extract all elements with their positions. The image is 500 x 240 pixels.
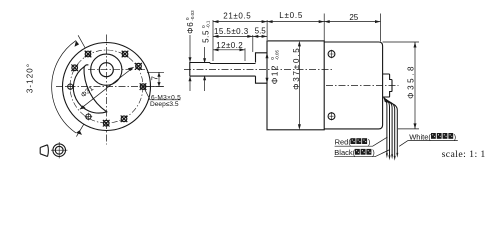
horizontal centerline (big circle) [56,86,165,88]
tapped hole 300deg [121,116,128,123]
projection symbol cone [40,145,48,157]
top dim lines [213,21,381,23]
svg-text:Φ6: Φ6 [186,21,195,33]
svg-text:25: 25 [349,13,358,22]
dim arc 3-120 [52,41,76,133]
svg-text:5.5: 5.5 [202,30,211,43]
extension lines top [213,14,381,62]
brush end cap [383,74,392,97]
5.5 arrows [204,47,206,91]
CJK-like blocks for white [431,133,453,139]
tapped hole 30deg [135,63,142,70]
crescent (internal gear edge) [73,67,106,113]
crescent cusp hook [84,65,88,68]
side view motor centerline [326,84,399,86]
svg-text:7: 7 [150,75,159,80]
svg-text:Red(: Red( [335,137,352,146]
shaft tip section [190,63,256,77]
plain hole 180deg [67,83,75,91]
label phi12 [270,49,280,84]
boss [256,53,268,83]
tapped hole 120deg [85,51,92,58]
motor screw bottom [328,112,335,120]
boss outer circle [91,54,122,85]
label phi6 [185,10,195,34]
phi12 arrows on gearbox face [266,53,269,59]
phi37 dim [298,45,300,126]
plain hole 240deg [85,113,93,121]
motor body [324,42,382,129]
svg-text:scale: 1: 1: scale: 1: 1 [442,149,486,160]
label 5.5 tol [201,20,211,43]
svg-text:L±0.5: L±0.5 [279,11,303,20]
svg-text:-0.03: -0.03 [190,10,195,21]
svg-text:White(: White( [409,132,431,141]
svg-text:Φ12: Φ12 [270,64,280,84]
CJK-like blocks for black [355,149,372,155]
svg-text:5.5: 5.5 [255,27,267,36]
phi35.8 dim [383,42,419,129]
svg-text:15.5±0.3: 15.5±0.3 [214,27,249,36]
radial tick bottom (239deg) [76,124,83,136]
svg-text:12±0.2: 12±0.2 [216,41,243,50]
leader 6-M3 [144,88,181,100]
dim row3 12±0.2 [213,49,245,51]
svg-text:Black(: Black( [334,148,355,157]
svg-text:-0.05: -0.05 [275,49,280,60]
svg-text:3-120°: 3-120° [25,63,34,93]
projection symbol circles [51,142,67,158]
motor screw top [328,50,335,58]
side view shaft centerline [184,68,333,70]
CJK-like blocks for red [351,138,368,144]
dim line phi31 [80,67,134,109]
gearbox body [267,41,324,130]
tapped hole 60deg [122,51,129,58]
svg-text:21±0.5: 21±0.5 [223,11,251,20]
tapped hole 0deg [140,83,147,90]
svg-text:-0.1: -0.1 [206,20,211,28]
front view outer circle (gearbox face) [63,43,151,131]
vertical centerline [105,35,107,145]
tapped hole 150deg [71,65,78,72]
shaft circle [99,63,113,77]
svg-text:Φ35.8: Φ35.8 [406,64,415,99]
bolt circle (dash-dot) [70,50,143,123]
dim 7 extension+line [146,72,164,86]
tapped hole 270deg [103,120,110,127]
wire label leaders [335,137,388,146]
svg-text:Deep≤3.5: Deep≤3.5 [150,101,179,108]
phi6 arrows [189,35,191,91]
dim row2 [213,35,267,37]
radial tick top (119deg) [78,35,85,48]
svg-text:Φ37±0.5: Φ37±0.5 [292,46,301,89]
wires [384,98,387,154]
shaft main section [210,63,256,65]
horizontal centerline (shaft boss) [88,69,147,71]
